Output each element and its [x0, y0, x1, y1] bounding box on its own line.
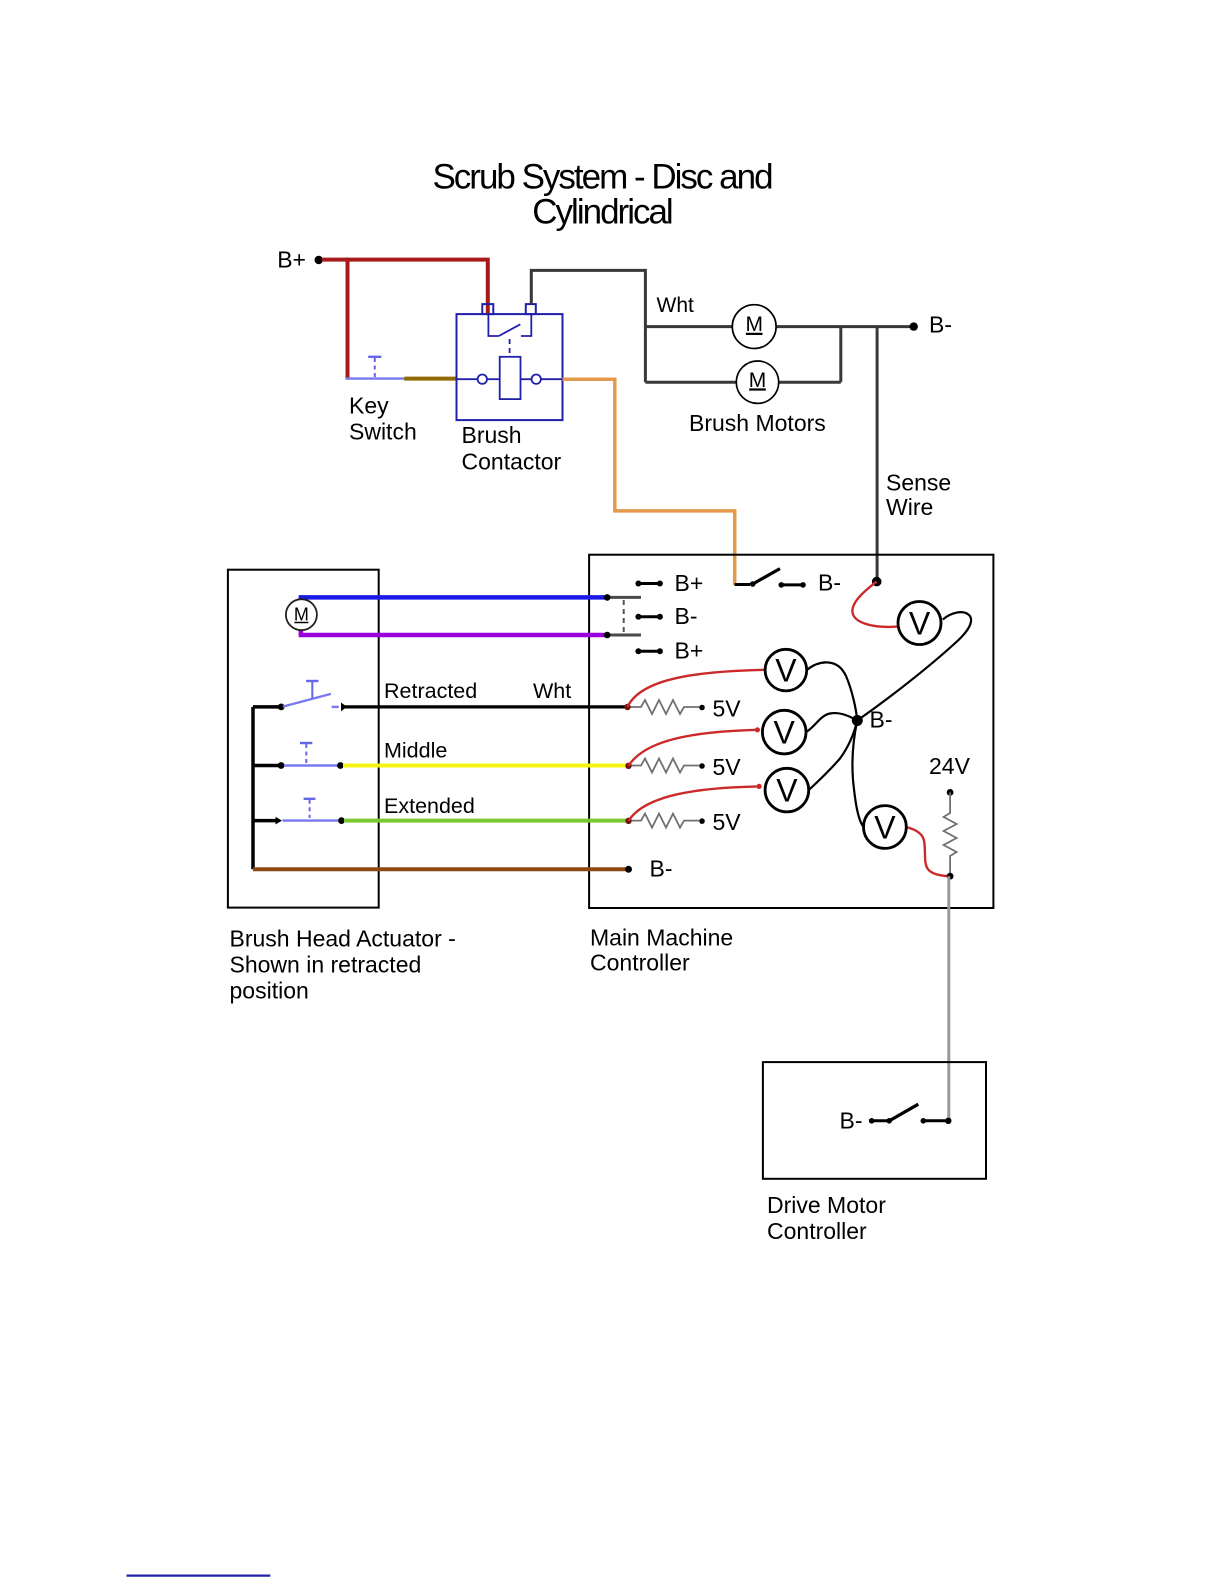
svg-text:5V: 5V: [713, 809, 742, 835]
svg-text:Main Machine: Main Machine: [590, 925, 733, 951]
svg-text:Brush: Brush: [462, 422, 522, 448]
svg-text:Key: Key: [349, 393, 389, 419]
svg-text:position: position: [230, 978, 309, 1004]
svg-text:M: M: [745, 313, 763, 336]
svg-text:M: M: [749, 369, 767, 392]
svg-text:B+: B+: [675, 638, 704, 664]
svg-text:Contactor: Contactor: [462, 448, 562, 474]
svg-text:V: V: [874, 809, 896, 845]
svg-text:V: V: [775, 653, 797, 689]
svg-text:5V: 5V: [713, 695, 742, 721]
svg-text:B-: B-: [840, 1107, 863, 1133]
svg-text:24V: 24V: [929, 753, 971, 779]
svg-text:Scrub System - Disc and: Scrub System - Disc and: [432, 158, 772, 197]
svg-text:V: V: [909, 606, 931, 642]
svg-text:B+: B+: [277, 247, 306, 273]
svg-text:Wht: Wht: [657, 294, 695, 317]
svg-text:Wire: Wire: [886, 494, 933, 520]
svg-text:Drive Motor: Drive Motor: [767, 1192, 886, 1218]
svg-text:Brush Head Actuator -: Brush Head Actuator -: [230, 926, 456, 952]
svg-text:Brush Motors: Brush Motors: [689, 410, 826, 436]
svg-text:B-: B-: [675, 603, 698, 629]
svg-text:B+: B+: [675, 570, 704, 596]
svg-text:M: M: [294, 605, 309, 625]
svg-text:B-: B-: [929, 312, 952, 338]
svg-text:V: V: [774, 715, 796, 751]
svg-text:Extended: Extended: [384, 794, 475, 818]
svg-text:Controller: Controller: [590, 950, 690, 976]
svg-text:Wht: Wht: [533, 679, 571, 703]
svg-text:Switch: Switch: [349, 419, 417, 445]
svg-text:Shown in retracted: Shown in retracted: [230, 952, 422, 978]
svg-text:B-: B-: [650, 856, 673, 882]
svg-text:Sense: Sense: [886, 470, 951, 496]
svg-text:B-: B-: [870, 707, 893, 733]
svg-text:Cylindrical: Cylindrical: [532, 193, 672, 232]
svg-text:B-: B-: [818, 570, 841, 596]
svg-text:Retracted: Retracted: [384, 679, 477, 703]
svg-text:Controller: Controller: [767, 1218, 867, 1244]
svg-text:V: V: [776, 773, 798, 809]
svg-text:5V: 5V: [713, 754, 742, 780]
svg-text:Middle: Middle: [384, 739, 447, 763]
